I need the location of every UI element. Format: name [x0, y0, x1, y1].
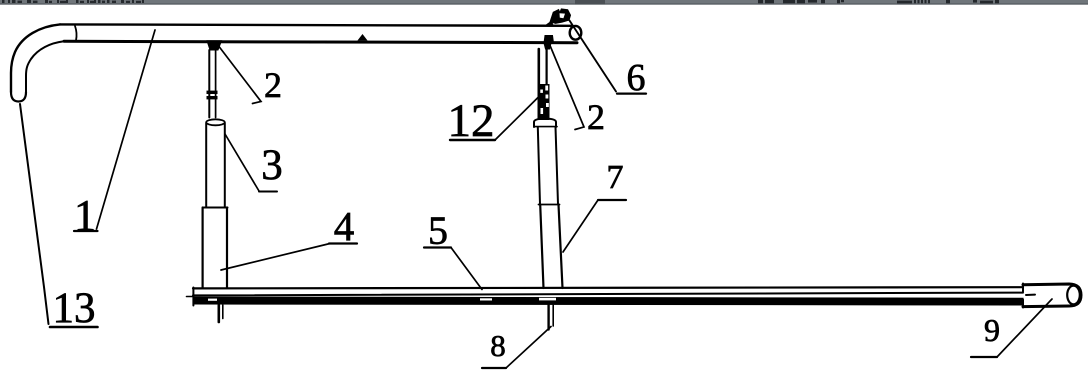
svg-text:12: 12 — [448, 95, 495, 147]
svg-text:6: 6 — [627, 57, 646, 99]
svg-text:9: 9 — [984, 312, 1000, 348]
svg-text:13: 13 — [53, 285, 96, 332]
svg-text:5: 5 — [428, 208, 448, 253]
svg-text:4: 4 — [334, 203, 355, 249]
svg-text:3: 3 — [261, 142, 283, 189]
svg-text:8: 8 — [490, 328, 506, 363]
svg-text:1: 1 — [74, 191, 96, 240]
svg-text:2: 2 — [264, 65, 282, 105]
svg-text:7: 7 — [607, 159, 624, 196]
svg-text:2: 2 — [587, 97, 605, 137]
